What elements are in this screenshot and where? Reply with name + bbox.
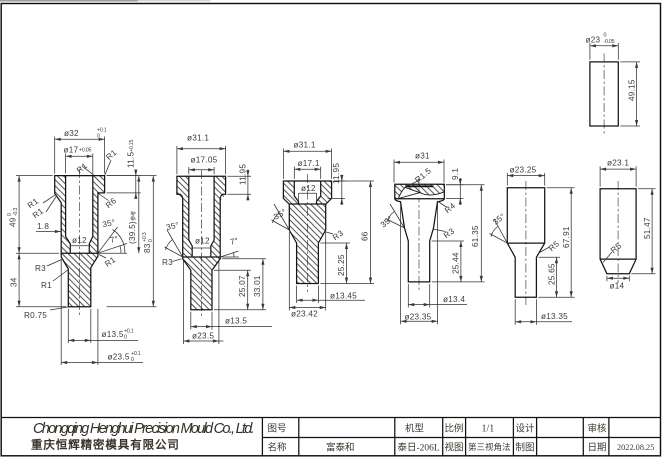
svg-text:R1: R1 bbox=[104, 148, 118, 162]
part3 hatch left wall bbox=[283, 181, 298, 204]
svg-text:R6: R6 bbox=[104, 196, 118, 210]
svg-text:83: 83 bbox=[143, 243, 152, 253]
dim Ø13.35 bbox=[514, 299, 516, 325]
svg-text:R3: R3 bbox=[35, 264, 46, 273]
scan streak top edge bbox=[0, 0, 138, 2]
svg-text:ø23.42: ø23.42 bbox=[291, 310, 318, 319]
svg-text:R5: R5 bbox=[547, 239, 561, 253]
leader R3 left bbox=[47, 260, 62, 267]
svg-text:35°: 35° bbox=[379, 214, 395, 229]
svg-text:2022.08.25: 2022.08.25 bbox=[617, 443, 654, 452]
svg-text:25.65: 25.65 bbox=[547, 263, 556, 285]
part5 dimensions bbox=[490, 173, 575, 325]
dim Ø12 part2 bbox=[191, 248, 193, 257]
part1 hatch left wall bbox=[55, 176, 71, 254]
svg-text:R4: R4 bbox=[443, 201, 457, 215]
svg-text:泰日-206L: 泰日-206L bbox=[398, 442, 440, 454]
dim 67.91 bbox=[547, 187, 575, 189]
angle 35 part2 bbox=[167, 230, 183, 257]
dim Ø13.45 bbox=[296, 286, 298, 304]
svg-text:Chongqing Henghui Precision Mo: Chongqing Henghui Precision Mould Co., L… bbox=[33, 421, 254, 437]
angle 35 part4 bbox=[390, 204, 405, 228]
svg-text:25.25: 25.25 bbox=[337, 254, 346, 276]
svg-text:R1: R1 bbox=[103, 255, 117, 269]
svg-text:1/1: 1/1 bbox=[482, 424, 495, 435]
dim Ø17.1 part3 bbox=[293, 167, 295, 179]
part6 outline bbox=[600, 189, 636, 274]
svg-text:+0.15: +0.15 bbox=[129, 140, 135, 152]
svg-text:25.07: 25.07 bbox=[238, 275, 247, 297]
svg-text:7°: 7° bbox=[109, 234, 119, 245]
svg-text:ø23.5: ø23.5 bbox=[192, 332, 214, 341]
dim 49 left bbox=[16, 175, 53, 177]
svg-text:(39.5): (39.5) bbox=[128, 221, 137, 244]
svg-text:33.01: 33.01 bbox=[253, 275, 262, 297]
svg-text:ø23.35: ø23.35 bbox=[405, 313, 432, 322]
svg-text:35°: 35° bbox=[491, 212, 507, 227]
svg-text:0: 0 bbox=[97, 134, 100, 140]
part4 dish cavity white bbox=[399, 188, 444, 199]
svg-text:35°: 35° bbox=[102, 218, 117, 230]
part5 centerline bbox=[525, 181, 527, 305]
dim 1.8 bbox=[36, 231, 61, 233]
svg-text:35°: 35° bbox=[165, 221, 180, 233]
part4 outline bbox=[395, 184, 445, 282]
part5 dim texts bbox=[491, 166, 571, 322]
dim 11.95 part3 bbox=[334, 180, 345, 182]
dim 49.15 bbox=[620, 61, 640, 63]
svg-text:第三视角法: 第三视角法 bbox=[468, 442, 511, 452]
part2 hatch right wall bbox=[211, 176, 226, 257]
dim Ø31.1 bbox=[176, 146, 178, 174]
dim Ø12 bore bottom bbox=[69, 246, 71, 253]
part7 dim texts bbox=[586, 33, 637, 102]
dim Ø23.1 bbox=[599, 166, 601, 186]
part4 flange bottom edge bbox=[395, 198, 445, 200]
svg-text:ø31: ø31 bbox=[415, 152, 430, 161]
svg-text:ø32: ø32 bbox=[64, 129, 79, 138]
svg-text:ø17.05: ø17.05 bbox=[191, 156, 218, 165]
svg-text:67.91: 67.91 bbox=[562, 226, 571, 248]
svg-text:61.35: 61.35 bbox=[471, 225, 480, 247]
part1 hatch lower solid bbox=[61, 253, 98, 307]
leader R4 bbox=[438, 202, 447, 208]
svg-text:7°: 7° bbox=[229, 236, 239, 247]
dim 25.44 bbox=[432, 240, 464, 242]
leader R3 part4 bbox=[433, 229, 446, 232]
angle 35 part3 bbox=[274, 204, 289, 230]
leader R1 bore-top bbox=[82, 166, 94, 175]
svg-text:R3: R3 bbox=[442, 226, 456, 240]
part4 centerline bbox=[418, 177, 420, 290]
svg-text:R1: R1 bbox=[41, 281, 52, 290]
leader R6 bbox=[98, 194, 108, 201]
svg-text:ø12: ø12 bbox=[72, 236, 87, 245]
part4 recess flat bbox=[405, 185, 433, 187]
dim 25.65 bbox=[538, 256, 560, 258]
part6 dim texts bbox=[607, 159, 652, 291]
svg-text:25.44: 25.44 bbox=[452, 252, 461, 274]
angle 7 part2 bbox=[220, 251, 238, 257]
svg-text:0: 0 bbox=[148, 239, 154, 242]
dim Ø31.1 part3 bbox=[282, 149, 284, 179]
dim Ø23.35 bbox=[400, 204, 402, 325]
svg-text:机型: 机型 bbox=[405, 423, 425, 435]
leader R5 part5 bbox=[540, 247, 550, 253]
svg-text:0: 0 bbox=[604, 33, 607, 39]
part1 outline bbox=[55, 176, 105, 307]
dim Ø23.42 bbox=[288, 232, 290, 311]
dim Ø23.5 part2 bbox=[182, 261, 184, 345]
svg-text:51.47: 51.47 bbox=[643, 217, 652, 239]
leader R3 part3 bbox=[325, 232, 334, 235]
part5 outline bbox=[507, 188, 544, 298]
svg-text:11.95: 11.95 bbox=[332, 163, 341, 184]
part4 dish arcs bbox=[398, 187, 405, 198]
part4 dish hatch bbox=[395, 184, 445, 198]
svg-text:图号: 图号 bbox=[268, 424, 287, 435]
svg-text:日期: 日期 bbox=[588, 443, 607, 454]
part1 hatch right wall bbox=[89, 176, 104, 254]
leader R5 part6 bbox=[603, 252, 612, 263]
dim Ø14 bbox=[606, 276, 608, 282]
dim 34 left bbox=[16, 306, 66, 308]
svg-text:R3: R3 bbox=[162, 258, 173, 267]
leader R1.5 bbox=[407, 180, 421, 186]
part3 hatch lower solid bbox=[289, 204, 325, 284]
dim (39.5) bbox=[138, 176, 140, 254]
svg-text:ø23.1: ø23.1 bbox=[607, 159, 629, 168]
svg-text:ø17.1: ø17.1 bbox=[298, 159, 320, 168]
part4 dim texts bbox=[379, 152, 480, 322]
leader R1 flange-top-right bbox=[105, 160, 111, 175]
dim 25.25 bbox=[320, 242, 350, 244]
part1 dimensions bbox=[16, 137, 157, 366]
svg-text:66: 66 bbox=[361, 231, 370, 241]
svg-text:ø14: ø14 bbox=[610, 282, 625, 291]
dim Ø17.05 bbox=[188, 167, 190, 174]
svg-text:0: 0 bbox=[124, 335, 127, 341]
svg-text:11.5: 11.5 bbox=[127, 151, 136, 168]
part2 dim texts bbox=[162, 134, 262, 341]
dim Ø31 bbox=[393, 160, 395, 183]
svg-text:11.95: 11.95 bbox=[238, 164, 247, 185]
title block grid bbox=[1, 418, 660, 457]
part2 centerline bbox=[201, 170, 203, 318]
svg-text:+0.05: +0.05 bbox=[79, 148, 91, 154]
dim Ø12 part3 bbox=[298, 193, 300, 201]
svg-text:ø12: ø12 bbox=[195, 237, 210, 246]
svg-text:9.1: 9.1 bbox=[451, 168, 460, 180]
dim 11.95 right bbox=[228, 175, 251, 177]
svg-text:49.15: 49.15 bbox=[627, 79, 636, 101]
svg-text:审核: 审核 bbox=[588, 423, 608, 435]
svg-text:富泰和: 富泰和 bbox=[326, 442, 355, 454]
svg-text:R1.5: R1.5 bbox=[413, 166, 433, 185]
svg-text:ø13.35: ø13.35 bbox=[541, 312, 568, 321]
part1 centerline bbox=[79, 169, 81, 316]
svg-text:名称: 名称 bbox=[268, 442, 288, 454]
part6 dimensions bbox=[600, 166, 655, 281]
part3 dim texts bbox=[272, 141, 369, 319]
svg-text:比例: 比例 bbox=[445, 423, 464, 435]
svg-text:R3: R3 bbox=[331, 228, 345, 242]
part2 hatch left wall bbox=[177, 176, 192, 257]
svg-text:ø31.1: ø31.1 bbox=[187, 134, 209, 143]
svg-text:0: 0 bbox=[131, 357, 134, 363]
svg-text:1.8: 1.8 bbox=[37, 222, 49, 231]
part1 dim texts bbox=[7, 128, 154, 364]
part2 dimensions bbox=[165, 146, 273, 344]
dim Ø23.5 bottom bbox=[60, 259, 62, 365]
dim 61.35 bbox=[446, 184, 485, 186]
svg-text:ø13.5: ø13.5 bbox=[225, 317, 247, 326]
angle 7 part1 bbox=[98, 244, 127, 254]
svg-text:ø13.5: ø13.5 bbox=[102, 330, 124, 339]
svg-text:制图: 制图 bbox=[516, 442, 535, 454]
leader R1 left lower bbox=[53, 270, 69, 282]
part3 hatch right wall bbox=[317, 181, 332, 204]
part6 centerline bbox=[617, 181, 619, 283]
angle 35 part5 bbox=[494, 219, 507, 243]
dim Ø13.5 bottom bbox=[67, 309, 69, 343]
svg-text:ø23.25: ø23.25 bbox=[510, 166, 537, 175]
part2 outline bbox=[177, 176, 226, 309]
dim Ø13.4 bbox=[407, 284, 409, 308]
part3 centerline bbox=[307, 174, 309, 292]
dim 51.47 bbox=[638, 188, 655, 190]
svg-text:视图: 视图 bbox=[445, 442, 464, 454]
leader R3 part2 bbox=[173, 259, 182, 262]
svg-text:设计: 设计 bbox=[516, 423, 536, 435]
svg-text:-0.05: -0.05 bbox=[604, 39, 615, 45]
svg-text:34: 34 bbox=[10, 277, 19, 287]
dim 9.1 bbox=[446, 184, 464, 186]
part7 outline bbox=[590, 62, 618, 126]
dim Ø23.25 bbox=[506, 173, 508, 186]
svg-text:-0.3: -0.3 bbox=[13, 208, 19, 216]
part4 dimensions bbox=[386, 160, 485, 325]
leader R1 7deg bbox=[99, 255, 106, 259]
svg-text:重庆恒辉精密模具有限公司: 重庆恒辉精密模具有限公司 bbox=[31, 438, 180, 452]
angle 35 part1 bbox=[98, 227, 118, 253]
part3 outline bbox=[283, 181, 331, 284]
dim 33.01 bbox=[222, 258, 266, 260]
svg-text:R1: R1 bbox=[75, 161, 89, 175]
dim Ø13.5 part2 bbox=[190, 312, 192, 330]
part3 dimensions bbox=[272, 149, 375, 311]
dim 11.5 right bbox=[107, 175, 141, 177]
dim 83 right bbox=[107, 306, 157, 308]
dim Ø23 0/-0.05 bbox=[589, 43, 591, 60]
svg-text:ø23.5: ø23.5 bbox=[108, 353, 130, 362]
svg-text:ø31.1: ø31.1 bbox=[294, 141, 316, 150]
svg-text:49: 49 bbox=[9, 217, 18, 227]
part7 dimensions bbox=[590, 43, 640, 126]
dim Ø32 +0.1/0 bbox=[54, 137, 56, 174]
part7 centerline bbox=[603, 54, 605, 135]
svg-text:R0.75: R0.75 bbox=[24, 311, 47, 320]
part2 hatch lower solid bbox=[183, 257, 221, 310]
svg-text:ø13.4: ø13.4 bbox=[443, 295, 465, 304]
svg-text:ø12: ø12 bbox=[301, 184, 316, 193]
leaders R1 R1 left chamfer bbox=[43, 194, 56, 203]
svg-text:ø17: ø17 bbox=[64, 146, 79, 155]
dim Ø17 +0.05 bbox=[65, 154, 67, 174]
svg-text:35°: 35° bbox=[272, 207, 288, 221]
svg-text:ø13.45: ø13.45 bbox=[330, 292, 357, 301]
svg-text:参考: 参考 bbox=[129, 211, 137, 221]
svg-text:ø23: ø23 bbox=[586, 36, 601, 45]
dim 66 bbox=[334, 180, 374, 182]
leader R0.75 bbox=[50, 307, 68, 310]
dim 25.07 bbox=[214, 269, 251, 271]
